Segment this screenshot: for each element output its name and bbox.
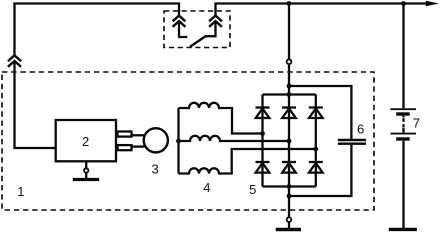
terminal ground circle (287, 217, 292, 222)
ground bar under battery (389, 228, 417, 231)
capacitor 6 bottom branch wire (289, 145, 351, 196)
wire top bus right segment with switch right stem (216, 4, 427, 16)
svg-text:1: 1 (17, 184, 24, 199)
regulator ground stub (85, 161, 87, 168)
node top bus / output column (287, 1, 292, 6)
node bottom rail / column (287, 184, 292, 189)
connector X1 lower chevron on left drop (8, 61, 21, 67)
diode VD4 cathode bar (256, 161, 270, 163)
diode VD4 triangle (256, 163, 270, 173)
diode VD6 cathode bar (309, 161, 323, 163)
node phase C / right leg (313, 147, 318, 152)
diode VD5 cathode bar (282, 161, 296, 163)
battery cell2 short plate (396, 137, 410, 140)
rectifier left leg (261, 95, 263, 187)
stator phase B coil (179, 136, 290, 141)
wire left drop lower + into regulator (15, 61, 56, 148)
battery cell1 short plate (396, 112, 410, 115)
arrowhead output to vehicle network (426, 1, 439, 7)
diode VD6 triangle (309, 163, 323, 173)
svg-text:2: 2 (82, 134, 89, 149)
capacitor 6 top branch wire (289, 86, 351, 139)
node top rail / column (287, 92, 292, 97)
wire brush lower to rotor (132, 145, 145, 147)
connector chevrons switch right terminal (209, 16, 222, 22)
rotor 3 circle (144, 128, 168, 152)
battery ground lead (402, 141, 404, 228)
wire top bus left segment with left drop (15, 4, 180, 56)
stator winding 4 star rail (177, 108, 179, 174)
wire stub to ground (288, 223, 290, 229)
stator phase C coil (179, 149, 316, 174)
rectifier 5 bottom rail (263, 185, 316, 187)
connector X1 upper chevron on left drop (8, 55, 21, 61)
voltage regulator 2 body (56, 120, 116, 161)
node star point (176, 139, 181, 144)
node phase B / column (287, 139, 292, 144)
svg-text:7: 7 (413, 115, 420, 130)
rectifier right leg (315, 95, 317, 187)
capacitor 6 top plate (338, 139, 366, 141)
svg-text:4: 4 (203, 180, 210, 195)
terminal B+ circle (287, 59, 292, 64)
svg-text:5: 5 (249, 182, 256, 197)
switch right stem and pivot bar (205, 21, 216, 36)
ground bar under rectifier (276, 228, 301, 231)
brush upper (118, 132, 132, 137)
brush lower (118, 145, 132, 150)
battery 7 feed wire (402, 4, 404, 109)
node capacitor top branch (287, 84, 292, 89)
wire brush upper to rotor (132, 134, 145, 136)
node top bus / battery (401, 1, 406, 6)
regulator ground terminal circle (84, 168, 88, 172)
diode VD3 cathode bar (309, 106, 323, 108)
switch blade (open) (190, 36, 206, 47)
alternator unit 1 dashed enclosure (2, 72, 374, 210)
connector chevrons switch left terminal (173, 16, 186, 22)
regulator ground stub lower (85, 173, 87, 178)
diode VD1 triangle (256, 109, 270, 119)
diode VD2 triangle (282, 109, 296, 119)
svg-text:6: 6 (357, 122, 364, 137)
diode VD5 triangle (282, 163, 296, 173)
wire main output column upper (288, 4, 290, 59)
ground bar under regulator (73, 178, 99, 181)
battery cell1 long plate (391, 108, 417, 110)
battery mid lead with break dashes (402, 116, 404, 118)
switch left fixed contact (179, 21, 187, 37)
diode VD1 cathode bar (256, 106, 270, 108)
switch S1 dashed enclosure (164, 11, 230, 48)
rectifier 5 top rail (263, 93, 316, 95)
stator phase A coil (179, 103, 263, 134)
diode VD2 cathode bar (282, 106, 296, 108)
capacitor 6 bottom plate (338, 142, 366, 144)
node phase A / left leg (260, 131, 265, 136)
node capacitor bottom branch (287, 194, 292, 199)
svg-text:3: 3 (151, 161, 158, 176)
diode VD3 triangle (309, 109, 323, 119)
wire main output column lower (288, 65, 290, 217)
battery cell2 long plate (391, 133, 417, 135)
